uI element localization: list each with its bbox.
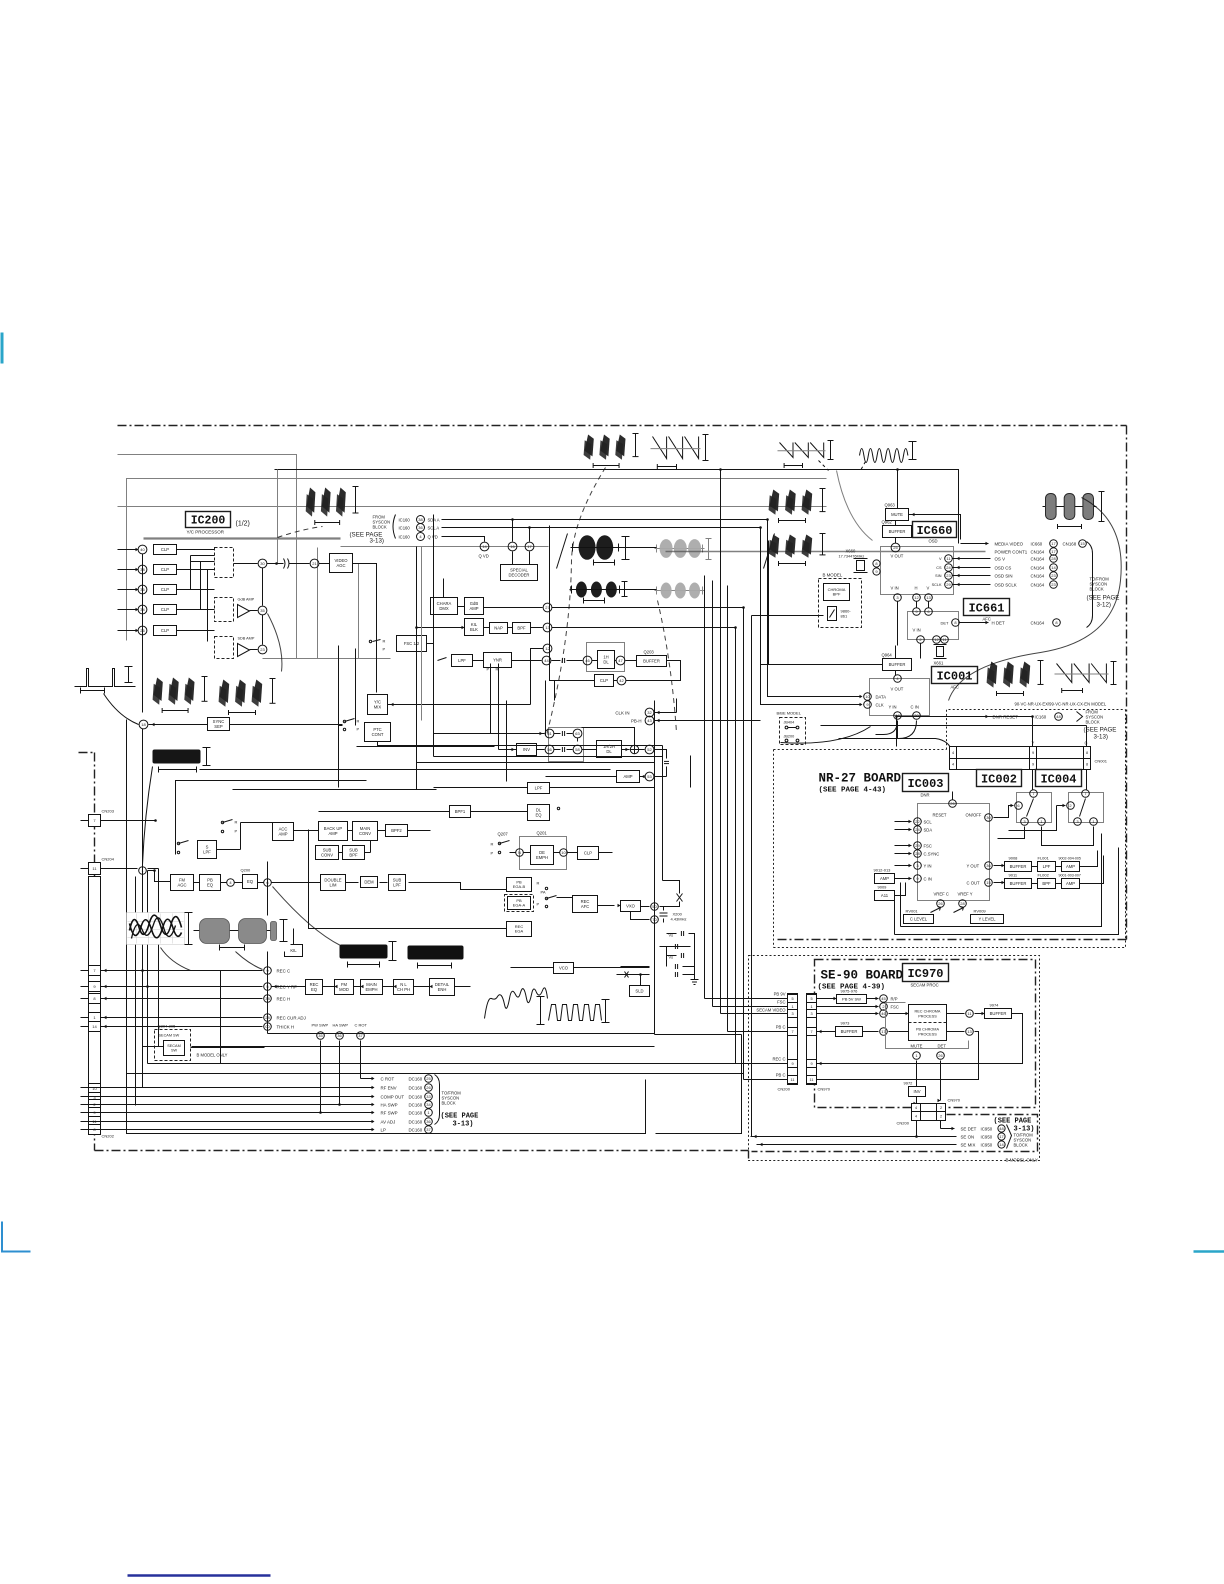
wire clkin feed [655, 712, 677, 714]
svg-text:C ROT: C ROT [381, 1077, 395, 1082]
svg-text:PA: PA [541, 890, 546, 895]
wire ic001 pin link to strip [898, 739, 953, 753]
svg-text:HA SWP: HA SWP [381, 1103, 398, 1108]
wire cn204 row [81, 868, 89, 870]
vertical rail x545 [545, 681, 547, 736]
switch 9860-861 [828, 607, 837, 621]
svg-text:3: 3 [1023, 819, 1026, 824]
region outline center process block bottom [268, 1033, 655, 1035]
brace to syscon right [1087, 542, 1093, 628]
block FL002 BPF [1038, 879, 1056, 889]
wire bus 43 source [676, 699, 678, 713]
svg-text:8: 8 [1055, 620, 1058, 625]
svg-text:OSD: OSD [929, 539, 938, 544]
svg-text:23: 23 [1051, 582, 1056, 587]
pin 1 left strip [89, 1013, 101, 1023]
svg-text:OSD SIN: OSD SIN [995, 574, 1013, 579]
pin 17 [525, 542, 534, 551]
svg-text:40: 40 [140, 547, 145, 552]
pin 6 center [264, 879, 272, 887]
svg-text:3-12): 3-12) [1097, 602, 1111, 609]
block VXO [621, 901, 641, 912]
svg-text:LIM: LIM [330, 882, 337, 887]
pin 1 CN970 [807, 1003, 817, 1011]
callout dash saw3 [819, 461, 829, 471]
wire bus right vertical 1 [704, 576, 706, 999]
waveform sawtooth IC001-right [1057, 664, 1072, 683]
svg-text:11: 11 [967, 1011, 972, 1016]
pin 63 [573, 729, 582, 738]
svg-text:CN164: CN164 [1031, 574, 1045, 579]
pin 8 left strip [89, 1125, 101, 1135]
region outline center nested b [233, 789, 437, 791]
svg-text:CN202: CN202 [102, 1134, 115, 1139]
svg-text:1: 1 [915, 1053, 918, 1058]
block 9002-004-005 AMP [1062, 862, 1080, 872]
wire Q VD rail [442, 536, 480, 538]
svg-text:R: R [383, 639, 386, 644]
block LPF mid [452, 655, 473, 667]
wire ptc long rail [391, 745, 663, 747]
pin 9 CN200 [788, 1060, 798, 1068]
pin 7 swb [1082, 790, 1090, 798]
pin 47 [616, 656, 625, 665]
svg-text:P: P [487, 667, 490, 672]
svg-text:BPF1: BPF1 [455, 809, 466, 814]
svg-text:8: 8 [1086, 751, 1088, 755]
wire ic660 vin long [897, 602, 899, 646]
svg-text:SECAM PROC: SECAM PROC [911, 983, 939, 988]
waveform coil top-right [860, 449, 908, 463]
block ACC AMP [273, 823, 294, 841]
wire bus right elbow 5 [736, 1063, 788, 1065]
B/BE MODEL dashed jumper box [780, 718, 806, 745]
wire bus right vertical 4 [727, 586, 729, 1032]
svg-text:Q962: Q962 [882, 520, 893, 525]
pin 4 center [227, 879, 235, 887]
cable dashed curve c2 [658, 601, 677, 733]
pin 26b ic003 [937, 900, 945, 908]
block DEM [361, 877, 378, 888]
wire ega to recafc [557, 897, 573, 899]
svg-text:SE MIX: SE MIX [961, 1143, 976, 1148]
block BACK UP AMP [319, 822, 348, 841]
wire pin1 right [148, 871, 171, 882]
pin 5 CN970 [807, 995, 817, 1003]
svg-text:RF ENV: RF ENV [381, 1086, 397, 1091]
svg-text:PROCESS: PROCESS [918, 1015, 937, 1019]
svg-text:5: 5 [791, 997, 793, 1001]
block PB EGA-B [507, 878, 532, 892]
wire fsc row [817, 1006, 879, 1008]
pin 9 ic003 C IN [914, 875, 922, 883]
wire rec y chain [272, 986, 306, 988]
pin 7 swa [1030, 790, 1038, 798]
wire dbl chain [346, 882, 359, 884]
pin 3 ic003 Y IN [914, 862, 922, 870]
svg-text:IC950: IC950 [981, 1127, 993, 1132]
svg-text:BUFFER: BUFFER [1010, 864, 1027, 869]
pin 26 IC200 [138, 626, 147, 635]
coil ruler [188, 913, 190, 945]
mux M2 dashed [215, 598, 234, 622]
wire 46 to 1H DL [592, 660, 598, 662]
NR region dotted border top [947, 710, 1126, 750]
IC IC661 label [964, 599, 1010, 616]
IC IC003 label [903, 774, 949, 792]
block SUB CONV [316, 846, 339, 860]
svg-text:8: 8 [1086, 762, 1088, 766]
svg-text:Q203: Q203 [644, 650, 655, 655]
svg-text:ENH: ENH [438, 987, 447, 992]
block DOUBLE LIM [321, 875, 346, 891]
svg-text:9972: 9972 [904, 1081, 914, 1086]
B MODEL dashed box [819, 579, 862, 628]
svg-text:18: 18 [141, 722, 146, 727]
wire pin21 to VIDEO AGC [319, 563, 330, 565]
svg-text:Q VD: Q VD [479, 554, 489, 559]
wire ic001 pin18 drop [897, 721, 899, 739]
svg-text:28: 28 [1051, 556, 1056, 561]
wire kil-nap [484, 627, 490, 629]
svg-text:LPF: LPF [203, 849, 211, 854]
svg-text:CONV: CONV [359, 831, 371, 836]
wire 53 to cap [655, 776, 667, 778]
svg-text:7: 7 [810, 1030, 812, 1034]
svg-text:10: 10 [561, 850, 566, 855]
block REC EGA [507, 922, 532, 937]
region outline mid-left tall [135, 877, 137, 1106]
svg-text:INV: INV [914, 1089, 921, 1094]
pin 18 [139, 720, 148, 729]
svg-text:6: 6 [1017, 803, 1020, 808]
svg-text:Q VD: Q VD [428, 535, 438, 540]
switch S-lpf [438, 658, 447, 661]
svg-text:IC661: IC661 [968, 601, 1004, 615]
svg-text:9: 9 [1032, 751, 1034, 755]
svg-text:14: 14 [999, 1142, 1004, 1147]
pin 2 ic970 [880, 1003, 888, 1011]
block IC660 body [881, 547, 954, 595]
pin 23 IC200 out3 [258, 645, 267, 654]
vertical rail x662 [662, 746, 664, 881]
svg-text:AGC: AGC [336, 563, 345, 568]
pin 15 ic003 [985, 879, 993, 887]
pin 7 CN970 [807, 1028, 817, 1036]
svg-text:15: 15 [986, 880, 991, 885]
junction dots left rows [141, 969, 144, 972]
SE pocket dash-dot box [752, 1115, 1038, 1152]
curve ic001 under [781, 727, 871, 744]
wire ic001 pins down [876, 721, 898, 735]
wire kil up [293, 929, 295, 945]
wire chroma to 13 [947, 1031, 965, 1033]
wire 13 out [817, 1032, 979, 1080]
wire bus right elbow 6 [744, 1079, 788, 1081]
wire ptc bottom [378, 742, 391, 746]
adder sum node [630, 745, 638, 753]
svg-text:DECODER: DECODER [509, 572, 530, 577]
wire ptc stub [339, 725, 343, 727]
block Q203 BUFFER [637, 656, 667, 667]
wire amp c out right [1080, 856, 1104, 884]
wire nap-bpf [508, 627, 513, 629]
svg-text:REC H: REC H [277, 997, 291, 1002]
svg-text:KIL: KIL [290, 948, 297, 953]
svg-text:46: 46 [585, 658, 590, 663]
svg-text:V OUT: V OUT [891, 554, 904, 559]
svg-text:21: 21 [312, 561, 317, 566]
svg-text:23: 23 [260, 647, 265, 652]
wire bpf to pin13 [531, 627, 543, 629]
vertical rail x676 [676, 699, 678, 713]
svg-text:BPF: BPF [349, 852, 358, 857]
svg-text:9: 9 [810, 1062, 812, 1066]
bracket H1 [594, 562, 615, 564]
svg-text:2: 2 [940, 1106, 942, 1110]
wire mux feeds vertical c [207, 570, 209, 642]
pin 2 left strip [89, 1100, 101, 1110]
svg-text:C IN: C IN [911, 705, 919, 710]
registration mark cyan right [1194, 1250, 1224, 1252]
cable dashed curve c1 [547, 468, 606, 736]
pin 30 ic003 [985, 814, 993, 822]
wire vxo to 50 [641, 906, 650, 908]
wire row 974b [617, 974, 650, 976]
pin 10 DATA [864, 693, 872, 701]
svg-text:25: 25 [426, 1076, 431, 1081]
waveform cluster left L2 [220, 680, 230, 704]
block DETAIL ENH [430, 979, 455, 996]
registration mark blue corner bottom-left [2, 1222, 31, 1252]
pin 25 IC660 [891, 543, 900, 552]
clamp CLP 3 [154, 585, 177, 595]
coil waveform icon [127, 913, 185, 945]
svg-text:IC970: IC970 [907, 967, 943, 981]
pin 1 swa [1038, 818, 1046, 826]
svg-text:9012-013: 9012-013 [874, 868, 892, 873]
svg-text:BLK: BLK [470, 627, 478, 632]
wire chroma feed vertical [443, 579, 445, 600]
svg-text:12: 12 [914, 595, 919, 600]
svg-text:29: 29 [915, 843, 920, 848]
pin 3 ic660 [894, 594, 902, 602]
svg-text:26: 26 [938, 1053, 943, 1058]
svg-text:8: 8 [954, 620, 957, 625]
block REC AFC [573, 896, 598, 913]
pin 11 CN200 [788, 1076, 798, 1084]
svg-text:P: P [357, 727, 360, 732]
pin 36 IC200 [138, 585, 147, 594]
svg-text:90·VC·NR·UX·EX/99·VC·NR·UX·CX·: 90·VC·NR·UX·EX/99·VC·NR·UX·CX·EN MODEL [1015, 702, 1107, 707]
net row RF SWP [101, 1112, 373, 1114]
svg-text:45: 45 [881, 996, 886, 1001]
vertical rail x433 [433, 515, 435, 757]
svg-text:BPF: BPF [517, 626, 526, 631]
svg-text:EQ: EQ [311, 987, 318, 992]
wire clp left down [550, 665, 595, 681]
crystal X200 [660, 912, 668, 914]
svg-text:(1/2): (1/2) [236, 521, 250, 528]
capacitor C201 coupling [284, 559, 286, 569]
svg-text:CN001: CN001 [1095, 759, 1108, 764]
pin 58 [573, 745, 582, 754]
pin 28 ic003 [959, 900, 967, 908]
net row LP [101, 1129, 373, 1131]
block AMP mid [617, 771, 640, 783]
svg-text:36: 36 [418, 525, 423, 530]
NR region dotted border step [774, 749, 947, 751]
block BUFFER Q962 [883, 526, 912, 538]
thick black bar sync [153, 750, 201, 764]
svg-text:4: 4 [915, 1106, 917, 1110]
svg-text:DL: DL [603, 659, 609, 664]
gray blob pair icon [193, 916, 291, 952]
block 9009 A11 [875, 891, 895, 901]
net row COMP OUT [101, 1096, 373, 1098]
pin 11 ic970 [966, 1010, 974, 1018]
head drum trio H4 gray [655, 583, 705, 599]
svg-text:1: 1 [791, 1005, 793, 1009]
block INV [517, 744, 537, 756]
wire CLP row 1 to mux [177, 549, 215, 551]
svg-text:IC160: IC160 [399, 535, 411, 540]
svg-text:23: 23 [946, 573, 951, 578]
amp A1 triangle [238, 605, 250, 618]
svg-text:SECAM SW: SECAM SW [159, 1034, 180, 1038]
svg-text:10: 10 [92, 1086, 97, 1091]
wire CLP row 4 input [118, 609, 137, 611]
svg-text:EGA: EGA [515, 929, 524, 934]
block PB EQ [200, 875, 221, 891]
wire nr bottom rail1 [901, 834, 1102, 927]
svg-text:DL: DL [606, 749, 612, 754]
pin 1 ic970 [913, 1052, 921, 1060]
mux M1 dashed [215, 548, 234, 578]
bar sync ruler [206, 748, 208, 766]
page border dash-dot right [1126, 426, 1128, 940]
svg-text:V OUT: V OUT [891, 687, 904, 692]
svg-text:NAP: NAP [494, 626, 503, 631]
svg-text:FSC 1/2: FSC 1/2 [404, 641, 420, 646]
wire 17 to chroma [889, 1031, 909, 1033]
svg-text:35: 35 [318, 1033, 323, 1038]
svg-text:SLD: SLD [635, 989, 643, 994]
svg-text:17.734476MHz: 17.734476MHz [839, 555, 865, 559]
wire harness axis H1-H3 link [619, 547, 657, 549]
block CHARA DMX [431, 598, 458, 615]
pin 40 IC200 [138, 545, 147, 554]
net row RF ENV [101, 1087, 373, 1089]
ruler H2 [624, 582, 626, 597]
svg-text:CLP: CLP [161, 607, 169, 612]
wire lpf-ynr [473, 660, 484, 662]
wire CLP row 5 to mux [177, 630, 215, 632]
pin 2 ic661 [917, 636, 925, 644]
pin 14 left strip [89, 1022, 101, 1032]
pin 13 ic660 [925, 594, 933, 602]
block MAIN CONV [353, 822, 378, 841]
wire 63 riser to adder [577, 738, 579, 742]
svg-text:28: 28 [265, 1015, 270, 1020]
IC IC200 label [186, 512, 231, 528]
svg-text:CN200: CN200 [897, 1121, 910, 1126]
block S LPF [198, 841, 217, 859]
switch S-dleq [557, 807, 559, 809]
svg-text:SCL: SCL [924, 820, 933, 825]
curve pin35 sweep [268, 614, 282, 672]
svg-text:BUFFER: BUFFER [889, 529, 906, 534]
svg-text:IC160: IC160 [1035, 715, 1047, 720]
block CHROMA BPF [824, 584, 850, 601]
svg-text:PB-H: PB-H [631, 719, 642, 724]
mux M3 dashed [215, 637, 234, 659]
wire swa out2 [1042, 827, 1094, 846]
pin 9 left strip [89, 982, 101, 992]
pin 12 ic661b [933, 636, 941, 644]
svg-text:9009: 9009 [878, 885, 888, 890]
svg-text:1: 1 [1092, 819, 1095, 824]
svg-text:7: 7 [1032, 791, 1035, 796]
svg-text:MOD: MOD [339, 987, 349, 992]
pin 6 ic661 [925, 608, 933, 616]
pin 1 CN200 [788, 1003, 798, 1011]
svg-text:11: 11 [946, 556, 951, 561]
svg-text:33: 33 [426, 1094, 431, 1099]
pin 3 swb [1074, 818, 1082, 826]
wire buffer up mute [895, 521, 897, 526]
switch S-fsc [373, 640, 381, 642]
svg-text:IC002: IC002 [981, 772, 1017, 786]
svg-text:26: 26 [950, 801, 955, 806]
pin N deemph [516, 849, 524, 857]
svg-text:14: 14 [482, 544, 487, 549]
block CLP mid [595, 675, 614, 687]
svg-text:CN204: CN204 [102, 857, 115, 862]
svg-text:AMP: AMP [278, 831, 287, 836]
svg-text:COMP OUT: COMP OUT [381, 1095, 405, 1100]
svg-text:H: H [915, 586, 918, 591]
pin boxes strip [950, 747, 957, 759]
pin 2 swb [1067, 802, 1075, 810]
svg-text:9001-003-007: 9001-003-007 [1059, 874, 1081, 878]
svg-text:V IN: V IN [891, 586, 899, 591]
svg-text:R: R [357, 719, 360, 724]
region outline top long rail [275, 470, 959, 544]
svg-text:SE-90 BOARD: SE-90 BOARD [821, 969, 904, 983]
svg-text:3: 3 [791, 1012, 793, 1016]
switch S-ptc [343, 720, 345, 722]
svg-text:IC004: IC004 [1040, 772, 1076, 786]
block SLD [630, 986, 650, 997]
svg-text:EGA-A: EGA-A [513, 903, 526, 908]
wire chroma to 11 [947, 1013, 965, 1015]
svg-text:11: 11 [810, 1078, 814, 1082]
svg-text:9975-976: 9975-976 [841, 989, 859, 994]
svg-text:CN168: CN168 [1063, 542, 1077, 547]
svg-text:CN970: CN970 [818, 1087, 831, 1092]
row SE MIX [757, 1144, 957, 1146]
pin 20 ic001 [913, 712, 921, 720]
svg-text:C LEVEL: C LEVEL [910, 917, 928, 922]
svg-text:4: 4 [952, 751, 954, 755]
wire inv feed [499, 749, 517, 751]
block CLP deemph [578, 847, 599, 860]
svg-text:EQ: EQ [247, 879, 254, 884]
svg-text:30: 30 [260, 561, 265, 566]
pot RV001 arrow [931, 907, 941, 913]
svg-text:CS: CS [936, 566, 942, 570]
